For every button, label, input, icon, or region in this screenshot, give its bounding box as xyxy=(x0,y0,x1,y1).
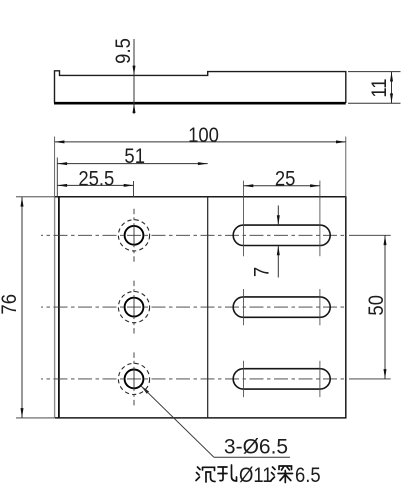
slot 3 right arc center line xyxy=(319,361,321,397)
hole 1 xyxy=(125,226,144,245)
slot 3 left arc center line xyxy=(243,361,245,397)
note text2 glyph 沉 xyxy=(196,467,215,482)
leader shoulder line xyxy=(214,456,290,458)
dimension 76 extension top xyxy=(16,196,54,198)
dimension 25.5 arrow right xyxy=(124,184,134,187)
dimension 25.5 line xyxy=(57,184,133,186)
hole 2 vertical center line xyxy=(133,281,135,334)
dimension 25.5 extension right xyxy=(133,181,135,197)
dimension 9.5 line xyxy=(133,39,135,114)
dimension 100 extension left xyxy=(54,137,56,197)
dimension 76 arrow top xyxy=(21,197,24,207)
svg-text:9.5: 9.5 xyxy=(112,38,135,64)
dimension 50 arrow bottom xyxy=(384,369,387,379)
main view left outer edge xyxy=(54,197,56,418)
hole 1 counterbore dashed circle xyxy=(118,220,149,251)
dimension 50 arrow top xyxy=(384,235,387,245)
hole 1 vertical center line xyxy=(133,209,135,262)
dimension 25.5 arrow left xyxy=(57,184,67,187)
hole 2 counterbore dashed circle xyxy=(118,292,149,323)
leader diagonal line xyxy=(141,386,214,458)
hole 2 xyxy=(125,298,144,317)
dimension 25 arrow right xyxy=(310,184,320,187)
dimension 25 line xyxy=(244,185,320,187)
svg-text:3-Ø6.5: 3-Ø6.5 xyxy=(224,436,288,459)
row 2 center line xyxy=(41,306,345,308)
svg-text:50: 50 xyxy=(365,295,388,316)
dimension 100 arrow right xyxy=(336,140,346,143)
slot 2 right arc center line xyxy=(319,289,321,325)
svg-text:11: 11 xyxy=(368,78,391,97)
svg-text:51: 51 xyxy=(124,145,145,168)
svg-text:6.5: 6.5 xyxy=(295,464,321,487)
dimension 100 line xyxy=(55,141,346,143)
dimension 50 line xyxy=(384,235,386,379)
dimension 9.5 arrow bottom xyxy=(133,103,136,113)
slot 1 left arc center line / 25 dim extension xyxy=(243,181,245,257)
svg-text:Ø11: Ø11 xyxy=(239,464,273,487)
note text2 glyph 深 xyxy=(271,466,293,483)
hole 3 xyxy=(125,370,144,389)
slot 2 left arc center line xyxy=(243,289,245,325)
svg-text:25.5: 25.5 xyxy=(78,168,114,191)
main view step feature line xyxy=(207,197,209,418)
main view outline top right bottom xyxy=(55,197,346,418)
dimension 51 arrow left xyxy=(57,162,67,165)
hole 3 vertical center line xyxy=(133,352,135,405)
leader arrow at hole 3 xyxy=(141,386,149,394)
slot 1 xyxy=(233,225,330,245)
dimension 51 arrow right xyxy=(198,162,208,165)
dimension 50 extension top xyxy=(349,234,391,236)
side view outline xyxy=(55,71,346,103)
dimension 7 lower line xyxy=(277,246,279,278)
side view bottom thick edge xyxy=(54,102,346,105)
dimension 11 arrow bottom xyxy=(390,93,393,103)
slot 1 right arc center line / 25 dim extension xyxy=(319,181,321,257)
dimension 50 extension bottom xyxy=(349,378,391,380)
dimension 76 line xyxy=(21,197,23,418)
svg-text:100: 100 xyxy=(188,124,219,147)
note text2 glyph 孔 xyxy=(218,465,237,481)
row 1 center line xyxy=(41,234,345,236)
slot 2 xyxy=(233,297,330,317)
dimension 7 upper line xyxy=(277,206,279,226)
dimension 11 extension top xyxy=(348,71,401,73)
dimension 51 reference line left xyxy=(56,158,58,197)
dimension 7 arrow up xyxy=(277,246,280,256)
dimension 11 line xyxy=(391,72,393,104)
dimension 7 arrow down xyxy=(277,215,280,225)
dimension 76 extension bottom xyxy=(16,417,54,419)
hole 3 counterbore dashed circle xyxy=(118,363,149,394)
row 3 center line xyxy=(41,378,345,380)
svg-text:7: 7 xyxy=(250,267,273,277)
dimension 76 arrow bottom xyxy=(21,408,24,418)
dimension 100 arrow left xyxy=(55,140,65,143)
dimension 9.5 arrow top xyxy=(133,66,136,76)
dimension 25 arrow left xyxy=(244,184,254,187)
svg-text:76: 76 xyxy=(0,294,22,315)
svg-text:25: 25 xyxy=(275,167,296,190)
dimension 11 extension bottom xyxy=(348,102,401,104)
dimension 51 line xyxy=(57,163,207,165)
dimension 11 arrow top xyxy=(390,72,393,82)
main view left inner edge line xyxy=(58,197,60,418)
slot 3 xyxy=(233,369,330,389)
dimension 100 extension right xyxy=(345,137,347,197)
